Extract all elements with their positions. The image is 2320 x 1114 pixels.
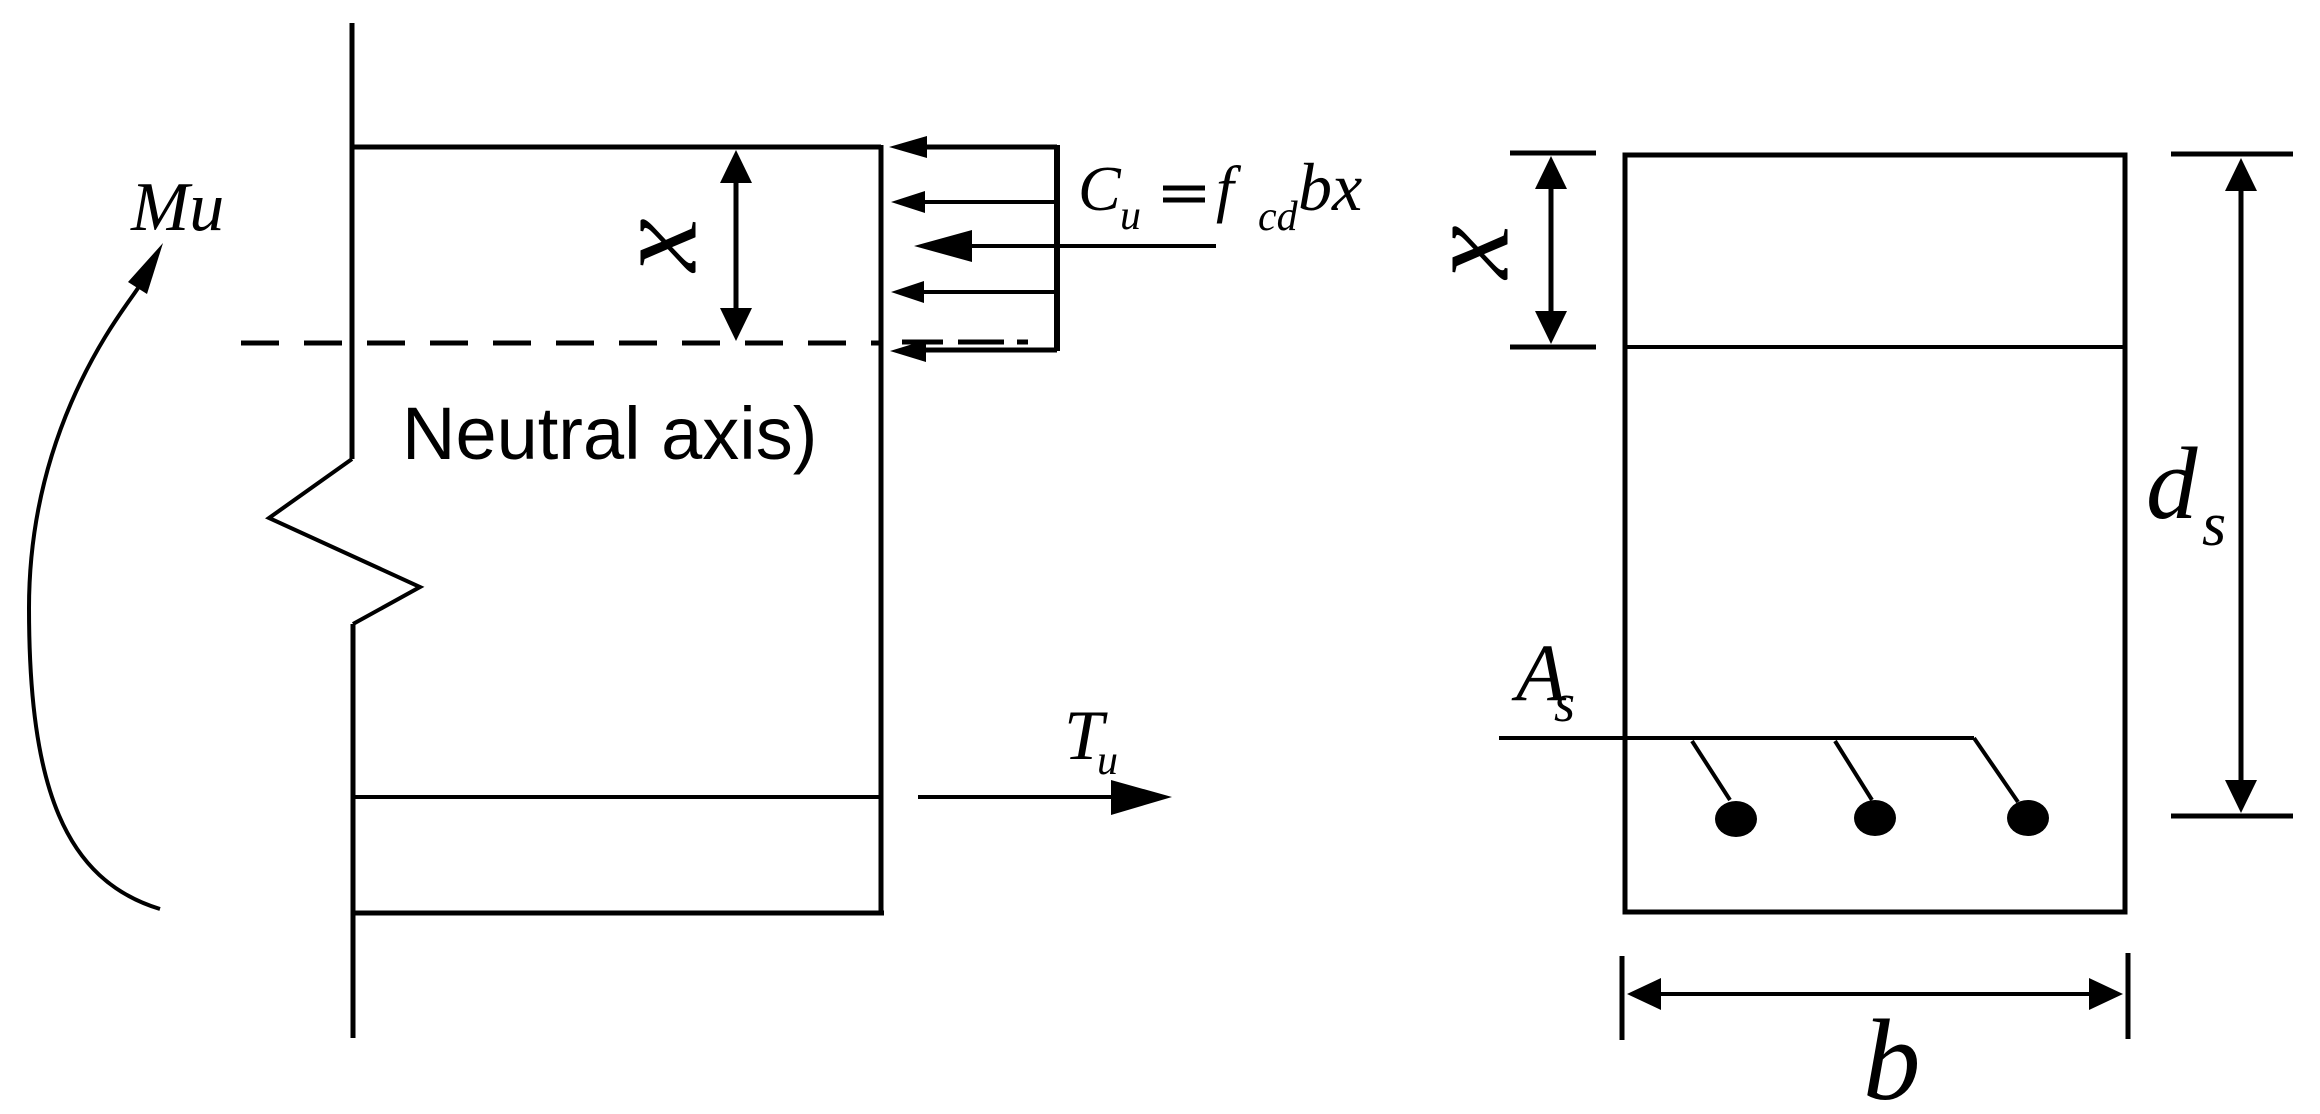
wire beam-bottom-edge (352, 911, 884, 916)
wire cross-section-na-line (1625, 345, 2125, 349)
svg-text:x: x (1401, 225, 1534, 280)
node stress-block-right-edge (1054, 145, 1060, 351)
node x-dimension-left-figure (720, 150, 752, 341)
node Tu-label (1064, 697, 1118, 784)
svg-text:s: s (1554, 673, 1575, 733)
wire moment-arc (29, 288, 160, 909)
wire stress-arrow-5-bottom (890, 340, 1057, 362)
svg-text:u: u (1097, 738, 1118, 784)
node ds-label (2146, 427, 2226, 559)
svg-text:cd: cd (1258, 194, 1299, 240)
wire As-leader-line (1499, 736, 1974, 740)
node rebar-dot-3 (2007, 800, 2049, 836)
wire rebar-tie-1 (1692, 741, 1730, 800)
node formula-Cu=fcdbx (1078, 149, 1362, 240)
wire rebar-tie-2 (1835, 741, 1872, 800)
wire wall-line-top (350, 23, 355, 459)
wire moment-arrowhead (128, 243, 163, 294)
svg-text:d: d (2146, 427, 2198, 541)
wire stress-arrow-1 (889, 136, 1057, 158)
wire stress-arrow-2 (891, 191, 1057, 213)
wire stress-arrow-4 (891, 281, 1057, 303)
wire zigzag-break (269, 459, 420, 624)
svg-text:C: C (1078, 153, 1122, 224)
node cross-section-rect (1625, 155, 2125, 912)
node rebar-dot-2 (1854, 800, 1896, 836)
node ds-dimension (2171, 154, 2293, 816)
wire wall-line-bottom (351, 624, 356, 1038)
node rebar-dot-1 (1715, 801, 1757, 837)
svg-text:b: b (1863, 997, 1921, 1114)
wire rebar-tie-3 (1974, 738, 2018, 802)
svg-text:s: s (2202, 491, 2226, 559)
wire neutral-axis-dashdot-in-block (902, 340, 1028, 345)
svg-text:Neutral axis): Neutral axis) (402, 392, 817, 475)
wire beam-right-edge (879, 145, 884, 913)
svg-text:Mu: Mu (130, 169, 224, 246)
wire beam-inner-bottom-line (352, 795, 881, 799)
svg-text:bx: bx (1298, 149, 1362, 225)
svg-text:x: x (589, 218, 722, 273)
svg-text:u: u (1120, 193, 1141, 239)
node x-dimension-right-figure (1510, 153, 1596, 347)
wire Tu-arrow (918, 780, 1172, 815)
wire stress-arrow-3-Cu-leader (914, 230, 1216, 262)
node b-dimension (1622, 953, 2128, 1040)
wire beam-top-edge (352, 145, 881, 150)
wire neutral-axis-dashed (241, 341, 881, 346)
node As-label (1511, 627, 1575, 733)
